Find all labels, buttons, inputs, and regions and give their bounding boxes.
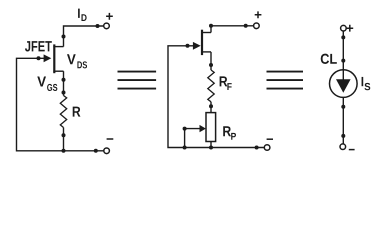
transistor Q2 (JFET) channel [201, 30, 203, 55]
node dot: RP bottom junction [209, 146, 213, 150]
transistor Q2 source lead [201, 51, 211, 53]
node dot: left bottom rail [94, 149, 98, 153]
plus sign: left terminal [106, 13, 113, 20]
transistor Q2 drain lead [201, 32, 211, 34]
minus sign: middle terminal [267, 138, 273, 140]
wire: RF bottom through RP to rail [210, 102, 212, 148]
equivalence sign 2 (triple bar) [267, 72, 304, 89]
label D (of ID) [81, 14, 86, 21]
node dot: right below source [341, 105, 345, 109]
plus sign: right terminal [347, 25, 354, 32]
transistor Q1 gate arrowhead [44, 54, 52, 62]
transistor Q1 (JFET) channel [53, 44, 55, 73]
resistor RF zigzag [208, 70, 214, 102]
node dot: left top rail [96, 24, 100, 28]
terminal: right - [340, 144, 346, 150]
wire: left drain wire and top rail to + terminal [64, 26, 104, 47]
wire: left source wire down to resistor [63, 71, 65, 95]
equivalence sign 1 (triple bar) [118, 72, 157, 89]
current source IS circle [330, 70, 358, 98]
terminal: left - [104, 148, 110, 154]
label I (of IS) [362, 77, 364, 86]
potentiometer RP wiper arrowhead [200, 125, 206, 132]
terminal: middle + [254, 23, 260, 29]
terminal: middle - [264, 145, 270, 151]
label DS (of VDS) [77, 61, 87, 68]
node dot: R top [62, 91, 66, 95]
label V (of VGS) [37, 77, 46, 87]
node dot: RP wiper [183, 127, 187, 131]
wire: middle source wire down to RF [210, 52, 212, 70]
minus sign: left terminal [107, 138, 114, 140]
wire: resistor R bottom lead to rail [63, 128, 65, 151]
node dot: middle source [209, 63, 213, 67]
transistor Q1 source lead [53, 70, 63, 72]
wire: RP wiper arm and stub to rail [185, 129, 200, 148]
transistor Q1 drain lead [53, 46, 63, 48]
wire: left gate wire, left side and bottom rail [17, 58, 104, 151]
node dot: middle bottom rail [255, 146, 259, 150]
label F (of RF) [227, 83, 231, 90]
label S (of IS) [364, 83, 370, 90]
label R (of RP) [223, 126, 231, 136]
label R (of RF) [220, 76, 228, 86]
node dot: left bottom junction [62, 149, 66, 153]
node dot: right CL node [341, 59, 345, 63]
terminal: left + [104, 23, 110, 29]
label P (of RP) [231, 133, 236, 140]
node dot: right above - terminal [341, 134, 345, 138]
node dot: middle gate [186, 44, 190, 48]
node dot: right below + terminal [341, 35, 345, 39]
node dot: left source [62, 78, 66, 82]
label V (of VDS) [67, 54, 76, 64]
label I (of ID) [78, 9, 80, 18]
terminal: right + [341, 25, 347, 31]
node dot: left gate [37, 56, 41, 60]
node dot: RF bottom [209, 104, 213, 108]
plus sign: middle terminal [255, 11, 262, 18]
resistor R zigzag [60, 96, 66, 128]
label JFET [25, 41, 52, 51]
wire: middle gate wire, left side and bottom rail [168, 46, 264, 148]
node dot: wiper stub junction [183, 146, 187, 150]
current source IS arrow shaft [342, 70, 344, 81]
wire: middle drain wire and top rail to + terminal [211, 26, 254, 33]
label R [73, 107, 81, 117]
minus sign: right terminal [349, 149, 355, 151]
potentiometer RP body [206, 113, 216, 142]
node dot: R bottom [62, 133, 66, 137]
node dot: middle drain corner [209, 24, 213, 28]
label GS (of VGS) [47, 84, 57, 91]
label CL [321, 54, 337, 64]
node dot: middle top rail [244, 24, 248, 28]
transistor Q2 gate arrowhead [193, 42, 201, 50]
wire: right branch vertical [342, 31, 344, 144]
node dot: left drain [62, 35, 66, 39]
current source IS arrowhead [336, 79, 351, 93]
